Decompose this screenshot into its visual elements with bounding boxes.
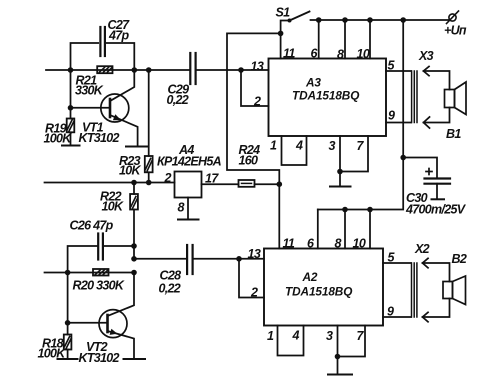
node R23 bottom (junction) [146, 180, 152, 186]
svg-text:11: 11 [283, 47, 295, 61]
svg-text:0,22: 0,22 [159, 282, 181, 296]
value label R23 10K [119, 154, 142, 178]
node pin2 stub A2 (junction) [236, 256, 242, 262]
speaker B1 [445, 82, 467, 115]
node R22 top (junction) [131, 180, 137, 186]
capacitor C30 [403, 158, 450, 200]
svg-text:A3: A3 [305, 76, 321, 90]
value label R19 100K [44, 122, 73, 146]
node pin10 A2 (junction) [367, 207, 373, 213]
svg-text:10K: 10K [119, 164, 142, 178]
wire pin10 A3 [369, 20, 371, 59]
value label C30 4700m/25V [405, 191, 467, 217]
svg-text:TDA1518BQ: TDA1518BQ [285, 284, 352, 298]
label VT1 KT3102 [79, 121, 120, 146]
wire A3 pin5 output [386, 70, 411, 72]
wire pins 1-4 link A2 [278, 326, 304, 356]
ground R18 [58, 358, 78, 360]
wire mid rail to A4 pin 2 [45, 182, 175, 184]
wire pin2 A2 [239, 259, 264, 298]
label A3 TDA1518BQ [292, 76, 359, 103]
svg-text:2: 2 [250, 286, 258, 300]
resistor R23 [145, 70, 153, 183]
transistor VT1 [71, 70, 138, 146]
svg-text:R20 330K: R20 330K [73, 279, 125, 293]
amplifier IC A2 TDA1518BQ [264, 249, 383, 326]
ground C30 [432, 198, 445, 200]
svg-text:10: 10 [357, 47, 370, 61]
ground A4 [178, 219, 199, 221]
value label R18 100K [38, 337, 67, 361]
node pin2 stub A3 (junction) [238, 67, 244, 73]
capacitor C26 [68, 234, 134, 273]
svg-text:10K: 10K [102, 200, 125, 214]
wire A2 pin9 output [383, 316, 411, 318]
resistor R19 [67, 108, 75, 146]
amplifier IC A3 TDA1518BQ [269, 59, 387, 137]
capacitor C29 [190, 53, 195, 84]
node switch branch (junction) [278, 31, 284, 37]
label A2 TDA1518BQ [285, 270, 352, 298]
svg-text:8: 8 [337, 48, 344, 62]
resistor R22 [130, 183, 138, 247]
wire pin6 A2 [317, 210, 319, 249]
svg-text:11: 11 [283, 237, 295, 251]
ground A2 [328, 374, 352, 376]
svg-text:4: 4 [292, 329, 300, 343]
ground A3 [330, 186, 351, 188]
node R24 output (junction) [277, 181, 283, 187]
value label C29 0,22 [167, 83, 190, 108]
svg-text:C26 47p: C26 47p [70, 219, 114, 233]
ground R19 [62, 145, 80, 147]
node base VT2 (junction) [65, 273, 71, 326]
wire X2 to speaker B2 top [423, 263, 450, 282]
label VT2 KT3102 [79, 340, 120, 365]
node collector VT1 (junction) [132, 67, 138, 73]
svg-text:A2: A2 [302, 270, 318, 284]
svg-text:KT3102: KT3102 [79, 131, 120, 145]
wire A4 pin8 [187, 198, 189, 220]
capacitor C27 [71, 27, 135, 70]
voltage regulator A4 KP142EH5A [175, 172, 202, 198]
wire pin11 A3 handled by switch; wire pin6 A3 [318, 20, 320, 59]
wire +U top rail [311, 19, 451, 21]
svg-text:KT3102: KT3102 [79, 351, 120, 365]
node pin8 A2 (junction) [342, 207, 348, 213]
ground VT1 emitter [126, 146, 148, 148]
svg-text:47p: 47p [108, 29, 130, 43]
label A4 KP142EH5A [157, 143, 222, 169]
node base network VT2 (junction) [65, 270, 71, 276]
ground VT2 emitter [124, 358, 146, 360]
svg-text:C28: C28 [160, 269, 182, 283]
wire pin7 A2 to pin3 [338, 326, 366, 357]
svg-text:TDA1518BQ: TDA1518BQ [292, 89, 359, 103]
svg-text:160: 160 [239, 154, 259, 168]
svg-text:X2: X2 [414, 242, 430, 256]
wire A3 pin9 output [386, 122, 411, 124]
svg-text:10: 10 [353, 237, 366, 251]
svg-text:330K: 330K [75, 84, 104, 98]
wire pin2 A3 [241, 70, 269, 106]
connector X2 [412, 258, 429, 322]
svg-text:3: 3 [326, 329, 333, 343]
svg-text:3: 3 [329, 139, 336, 153]
resistor R18 [64, 323, 72, 359]
terminal +Un [444, 11, 467, 38]
svg-text:0,22: 0,22 [167, 93, 189, 107]
transistor VT2 [68, 273, 134, 359]
svg-text:9: 9 [388, 109, 395, 123]
wire X3 to speaker B1 bottom [424, 108, 450, 123]
svg-text:КР142ЕН5А: КР142ЕН5А [157, 155, 222, 169]
wire pin7 A3 to pin3 [340, 136, 368, 172]
switch S1 [276, 6, 310, 59]
svg-text:1: 1 [270, 139, 277, 153]
wire pin8 A2 [344, 210, 346, 249]
svg-text:S1: S1 [276, 6, 291, 20]
node C30 branch (junction) [400, 155, 406, 161]
svg-text:13: 13 [251, 59, 264, 73]
speaker B2 [443, 276, 466, 305]
wire pin3 A2 to ground [337, 326, 339, 375]
node pin10 A3 (junction) [367, 17, 373, 23]
wire pin8 A3 [344, 20, 346, 59]
svg-text:2: 2 [164, 171, 172, 185]
wire input line upper channel [46, 69, 269, 71]
value label R24 160 [239, 143, 261, 168]
wire A2 pin5 output [383, 262, 411, 264]
value label C28 0,22 [159, 269, 182, 296]
wire pins 1-4 link A3 [282, 136, 307, 165]
node pin3-pin7 A2 (junction) [335, 354, 341, 360]
wire pin10 A2 [369, 210, 371, 249]
node pin8 A3 (junction) [342, 17, 348, 23]
value label R22 10K [100, 190, 124, 214]
node C26 right (junction) [131, 243, 137, 249]
wire input line lower channel [45, 272, 135, 274]
wire pin3 A3 to ground [339, 136, 341, 187]
wire +U vertical to A2 rail [318, 20, 403, 210]
capacitor C28 [134, 245, 264, 274]
wire X2 to speaker B2 bottom [423, 299, 450, 318]
svg-text:100K: 100K [44, 132, 73, 146]
wire X3 to speaker B1 top [424, 71, 450, 90]
resistor R24 [202, 180, 280, 187]
node R23 top (junction) [146, 67, 152, 73]
node C28 left (junction) [131, 256, 137, 262]
wire switched supply to A2 pin11 [227, 33, 281, 248]
node +U vertical (junction) [400, 17, 406, 23]
node base VT1 (junction) [68, 70, 74, 111]
node collector VT2 (junction) [131, 270, 137, 276]
svg-text:+Uп: +Uп [444, 24, 467, 38]
svg-text:13: 13 [248, 247, 261, 261]
value label C27 47p [108, 18, 131, 43]
node pin6 A3 (junction) [316, 17, 322, 23]
svg-text:8: 8 [178, 201, 185, 215]
resistor R21 [97, 66, 112, 73]
svg-text:X3: X3 [418, 49, 434, 63]
svg-text:1: 1 [267, 329, 274, 343]
connector X3 [412, 67, 430, 129]
svg-text:B2: B2 [452, 252, 467, 266]
svg-text:2: 2 [253, 95, 261, 109]
node base network VT1 (junction) [68, 67, 74, 73]
svg-text:8: 8 [335, 237, 342, 251]
svg-text:B1: B1 [446, 127, 461, 141]
value label R21 330K [75, 74, 104, 98]
svg-text:4700m/25V: 4700m/25V [405, 203, 467, 217]
svg-text:4: 4 [295, 139, 303, 153]
resistor R20 [93, 269, 109, 276]
node pin3-pin7 A3 (junction) [337, 169, 343, 175]
